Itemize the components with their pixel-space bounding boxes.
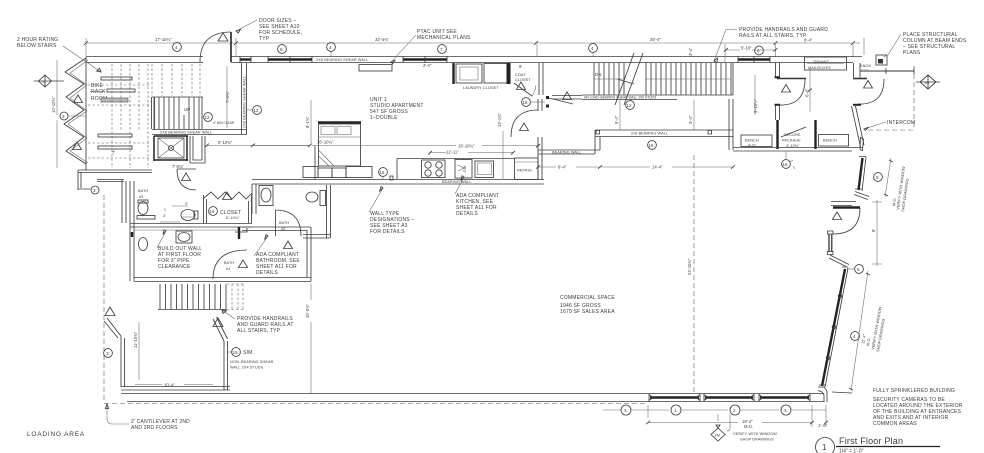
unit entry door arc xyxy=(511,110,538,137)
triangle keynote bike xyxy=(74,95,83,103)
title underline xyxy=(836,446,940,448)
dim line 16'-10 3/4" xyxy=(253,145,538,147)
svg-text:TENANT: TENANT xyxy=(813,60,829,64)
dim diag window2 xyxy=(851,271,868,391)
keynote triangle closet xyxy=(223,192,232,200)
survey diamond right xyxy=(916,75,940,89)
svg-text:7'-6¾": 7'-6¾" xyxy=(225,91,230,103)
property dashed line west xyxy=(103,195,105,400)
dim line y167 xyxy=(538,166,733,168)
SECTION: commercial space xyxy=(560,155,694,393)
keynote triangle at door xyxy=(218,33,228,41)
svg-text:6'-8": 6'-8" xyxy=(805,88,810,97)
svg-text:CLEARANCE: CLEARANCE xyxy=(158,264,191,270)
svg-text:16: 16 xyxy=(210,209,216,214)
svg-text:4" MIN CLEAR: 4" MIN CLEAR xyxy=(213,121,235,125)
stove xyxy=(422,160,446,178)
coat closet door xyxy=(514,83,532,96)
closet label xyxy=(209,207,218,216)
cantilever leader xyxy=(107,404,129,424)
bearing wall upper band xyxy=(595,130,733,137)
washer box xyxy=(456,64,482,83)
svg-text:8': 8' xyxy=(871,229,876,232)
bath3 toilet xyxy=(138,202,148,215)
svg-text:WALL 2X4 STUDS: WALL 2X4 STUDS xyxy=(230,366,264,370)
svg-text:5'-4": 5'-4" xyxy=(614,115,619,124)
svg-text:12: 12 xyxy=(205,115,211,120)
pillow xyxy=(321,127,335,135)
svg-text:2X6 BEARING SHEAR WALL: 2X6 BEARING SHEAR WALL xyxy=(243,76,247,129)
svg-text:15: 15 xyxy=(233,350,239,355)
entry door arc xyxy=(833,208,860,234)
svg-text:1679 SF SALES AREA: 1679 SF SALES AREA xyxy=(560,309,615,315)
svg-text:3': 3' xyxy=(163,214,166,218)
keynote circle 16 wall xyxy=(379,168,388,180)
title circle xyxy=(816,438,835,453)
svg-text:24'-10¾": 24'-10¾" xyxy=(687,258,692,275)
svg-text:First Floor Plan: First Floor Plan xyxy=(839,436,903,446)
bed fold xyxy=(319,150,335,166)
storefront window 2 diagonal xyxy=(822,269,845,386)
svg-text:2X6 BEARING SHEAR WALL: 2X6 BEARING SHEAR WALL xyxy=(316,58,369,62)
svg-text:4'-6": 4'-6" xyxy=(748,144,757,148)
svg-text:TYP: TYP xyxy=(259,36,270,42)
wall stub left of corridor xyxy=(235,228,247,232)
svg-text:NON–BEARING SHEAR: NON–BEARING SHEAR xyxy=(230,360,274,364)
svg-text:FULLY SPRINKLERED BUILDING: FULLY SPRINKLERED BUILDING xyxy=(873,388,955,394)
svg-text:12'-10¾": 12'-10¾" xyxy=(51,96,56,113)
secure package door diagonal xyxy=(781,127,806,137)
svg-text:BENCH: BENCH xyxy=(823,139,837,143)
keynote triangle lobby L xyxy=(782,85,791,93)
bearing wall lower band xyxy=(538,150,600,154)
shaft double wall xyxy=(190,136,205,163)
bike room dashed grid vertical xyxy=(112,64,148,168)
kitchen counter edge xyxy=(397,159,515,180)
corridor toilet xyxy=(139,238,148,251)
small marker on wall xyxy=(390,176,393,180)
keynote circle 3 on step xyxy=(91,186,99,194)
door arc bike hall xyxy=(177,169,196,190)
elevator cab xyxy=(158,138,184,158)
secure package east wall xyxy=(814,120,816,149)
svg-text:REFRIG: REFRIG xyxy=(517,169,532,173)
svg-text:CLOSET: CLOSET xyxy=(515,78,531,82)
svg-text:11'-10¾": 11'-10¾" xyxy=(133,331,138,348)
keynote triangle zigzag lower xyxy=(73,142,82,150)
bike room entry door leaf xyxy=(230,32,232,62)
corridor sink xyxy=(176,231,192,243)
window frame marker xyxy=(860,138,864,151)
svg-text:LOADING AREA: LOADING AREA xyxy=(27,431,85,438)
svg-text:9'-10½": 9'-10½" xyxy=(753,98,758,113)
keynote circle 16 xyxy=(648,141,657,150)
bath2 room: west wall xyxy=(252,184,256,214)
SECTION: upper stair, elevator, shaft xyxy=(152,63,313,190)
bike rack bar gray xyxy=(101,98,128,102)
entry door leaf xyxy=(833,206,860,208)
bath2 toilet xyxy=(306,192,318,202)
lower stair bottom edge xyxy=(158,309,227,311)
svg-text:DN: DN xyxy=(595,72,602,77)
bike rack bar 1 xyxy=(101,77,132,80)
hall door leaf diagonal xyxy=(549,98,573,104)
column dashed line xyxy=(693,155,695,393)
stair south bearing wall xyxy=(582,95,677,100)
handrail leader lower xyxy=(222,310,235,319)
svg-text:5'-10¾": 5'-10¾" xyxy=(218,140,233,145)
svg-text:M: M xyxy=(43,80,46,84)
bath1 north wall xyxy=(242,227,311,231)
bench west box xyxy=(741,135,772,147)
svg-text:5'-10": 5'-10" xyxy=(741,46,752,51)
SECTION: bath block xyxy=(130,181,331,282)
closet east wall xyxy=(249,195,252,223)
SECTION: top dimension chain xyxy=(84,37,864,62)
bath1 door arc xyxy=(213,250,247,279)
buildout leader xyxy=(157,231,166,248)
south wall outer xyxy=(121,394,824,402)
wall stud squares xyxy=(596,131,712,135)
upper stair treads xyxy=(154,97,202,129)
right exit door leaf xyxy=(853,78,867,80)
left lobby door arc xyxy=(779,79,805,105)
bed outline xyxy=(319,124,361,166)
keynote circle 4b xyxy=(327,43,336,56)
corridor north wall band xyxy=(130,224,252,228)
corridor second line xyxy=(134,229,240,231)
svg-text:26'-0¾": 26'-0¾" xyxy=(305,303,310,318)
bike room southwest step walls xyxy=(78,170,90,190)
SECTION: corridor step walls and dims xyxy=(536,99,735,170)
lobby dim line x810 xyxy=(809,68,811,112)
bath2 south wall xyxy=(303,235,330,239)
elevator shaft walls xyxy=(154,136,188,161)
stair dashed part xyxy=(227,284,243,310)
svg-text:1–DOUBLE: 1–DOUBLE xyxy=(370,115,398,121)
window segment w2 xyxy=(268,58,312,60)
elevator X xyxy=(158,138,184,158)
SECTION: central stair DN xyxy=(552,30,737,110)
upper stair top edge xyxy=(152,96,203,98)
keynote triangle stair low xyxy=(213,318,223,327)
svg-text:HR LOAD–BEARING SHEAR WALL 2X6: HR LOAD–BEARING SHEAR WALL 2X6 STUDS xyxy=(584,96,657,100)
window segment w3 xyxy=(403,58,447,60)
right exit door arc xyxy=(858,79,884,104)
lower stair treads xyxy=(160,284,226,309)
storefront window s2 xyxy=(705,396,753,398)
bench east box xyxy=(819,135,849,147)
svg-text:DW: DW xyxy=(463,165,467,172)
SECTION: south wall and bottom dims xyxy=(27,394,828,442)
svg-text:1'-4": 1'-4" xyxy=(818,423,827,428)
svg-text:DETAILS: DETAILS xyxy=(256,270,278,276)
dryer box xyxy=(484,64,509,84)
bath2 east wall xyxy=(327,185,331,238)
lobby south wall xyxy=(733,148,863,152)
bike rack bar 4 xyxy=(98,146,132,149)
keynote triangle entry xyxy=(833,212,842,220)
svg-text:6'-4": 6'-4" xyxy=(558,165,567,170)
dim ext dashed x311 xyxy=(310,100,312,143)
keynote triangle unit door xyxy=(520,123,529,131)
wall step down left xyxy=(595,130,600,154)
keynote circle 3 low xyxy=(104,349,113,358)
bottom dim line xyxy=(603,409,826,411)
shear room west diagonal xyxy=(104,318,121,338)
svg-text:MAILBOXES: MAILBOXES xyxy=(808,66,831,70)
laundry east stud xyxy=(507,63,511,84)
bath2 sink xyxy=(259,186,273,206)
closet west wall xyxy=(204,195,207,223)
storefront window s3 xyxy=(760,396,809,398)
svg-text:12'-1¾": 12'-1¾" xyxy=(497,112,502,127)
cabinet row under bed xyxy=(303,167,318,178)
dim 10'-4" xyxy=(135,384,213,386)
shear room east wall xyxy=(224,341,228,390)
svg-text:PLANS: PLANS xyxy=(903,50,921,56)
svg-text:5'-10¾": 5'-10¾" xyxy=(226,216,240,220)
bike rack bar 3 xyxy=(98,134,132,137)
bottom dim exts xyxy=(648,405,826,427)
svg-text:7': 7' xyxy=(112,150,115,155)
lower west wall to bath block xyxy=(97,180,126,224)
top dim line xyxy=(86,42,860,44)
svg-text:7'-6¾": 7'-6¾" xyxy=(172,164,184,169)
keynote triangle coat xyxy=(517,82,526,90)
shear room west wall xyxy=(121,336,125,387)
corridor east wall x538 xyxy=(538,63,543,180)
svg-text:ALL STAIRS, TYP: ALL STAIRS, TYP xyxy=(237,328,281,334)
wall jog to window2 xyxy=(829,255,849,267)
bike room south wall xyxy=(78,170,152,173)
bike room entry door arc xyxy=(200,32,231,62)
bath3 shelf xyxy=(137,216,155,220)
keynote circle 4 xyxy=(173,43,182,52)
keynote triangle lobby R xyxy=(864,81,873,89)
svg-text:14'-4": 14'-4" xyxy=(652,165,663,170)
svg-text:PACKAGE: PACKAGE xyxy=(782,139,801,143)
svg-text:16'-10¼": 16'-10¼" xyxy=(317,140,334,145)
bed blanket line xyxy=(319,136,361,138)
bed headboard xyxy=(318,121,361,123)
svg-text:BATH: BATH xyxy=(279,221,289,225)
keynote circle 12 stair xyxy=(204,113,213,122)
storefront window 1 xyxy=(859,158,863,190)
west zigzag existing wall xyxy=(64,58,86,164)
sim note xyxy=(228,348,240,357)
svg-text:12: 12 xyxy=(254,108,260,113)
hall door jamb xyxy=(546,96,549,108)
svg-text:32'-4¾": 32'-4¾" xyxy=(375,37,390,42)
west vertical dim line xyxy=(56,60,58,168)
svg-text:26'-4": 26'-4" xyxy=(650,37,661,42)
SECTION: west zigzag wall and bike room xyxy=(34,57,152,223)
svg-text:COMMON AREAS: COMMON AREAS xyxy=(873,421,917,427)
svg-text:LAUNDRY CLOSET: LAUNDRY CLOSET xyxy=(463,86,499,90)
SECTION: east facade xyxy=(818,63,910,402)
svg-text:12'-11": 12'-11" xyxy=(446,150,459,155)
cantilever dashed line xyxy=(104,403,645,405)
svg-text:1/4" = 1'-0": 1/4" = 1'-0" xyxy=(839,449,864,453)
keynote circle 4c xyxy=(589,44,598,57)
svg-text:UP: UP xyxy=(184,107,190,112)
svg-text:SHOP DRAWINGS: SHOP DRAWINGS xyxy=(740,438,774,442)
bike room dashed grid horizontal xyxy=(88,85,150,158)
svg-text:3': 3' xyxy=(185,202,188,206)
sink xyxy=(475,161,494,178)
door jamb left xyxy=(131,232,133,237)
svg-text:12: 12 xyxy=(627,103,633,108)
southeast corner xyxy=(818,387,827,402)
svg-text:3'-4": 3'-4" xyxy=(688,115,693,124)
keynote circle 12 xyxy=(626,99,635,109)
svg-text:COMMERCIAL SPACE: COMMERCIAL SPACE xyxy=(560,295,615,301)
storefront window s1 xyxy=(650,396,699,398)
elevator center circle xyxy=(169,146,174,151)
svg-text:BEARING WALL: BEARING WALL xyxy=(552,151,582,155)
svg-text:M.O.: M.O. xyxy=(744,424,753,429)
svg-text:1M: 1M xyxy=(924,81,929,85)
keynote circle 12 wall xyxy=(247,106,261,115)
shear room south wall xyxy=(121,387,230,391)
svg-text:BATH: BATH xyxy=(138,189,148,193)
sidelite window xyxy=(829,234,832,252)
keynote circle 3 west xyxy=(60,112,86,120)
svg-text:INTERCOM: INTERCOM xyxy=(887,120,915,126)
north wall double line xyxy=(86,57,203,63)
window2 mullions xyxy=(838,294,842,298)
svg-text:16'-10¾": 16'-10¾" xyxy=(458,144,475,149)
dim extension ticks xyxy=(84,41,855,45)
svg-text:2M: 2M xyxy=(715,434,720,438)
svg-text:#3: #3 xyxy=(139,195,143,199)
svg-text:9': 9' xyxy=(519,64,522,69)
stair treads xyxy=(594,63,731,95)
stair west wall xyxy=(152,97,155,129)
dishwasher xyxy=(455,160,472,179)
bottom dim circles xyxy=(621,405,631,415)
svg-text:16: 16 xyxy=(523,100,529,105)
ext line kitchen xyxy=(502,131,504,180)
svg-text:1: 1 xyxy=(822,443,827,452)
svg-text:MECHANICAL PLANS: MECHANICAL PLANS xyxy=(417,35,471,41)
keynote circle 7 xyxy=(438,45,447,54)
mailbox box xyxy=(805,57,847,70)
svg-text:2X6 BEARING SHEAR WALL: 2X6 BEARING SHEAR WALL xyxy=(160,131,213,135)
SECTION: unit 1 apartment xyxy=(252,63,573,184)
upper flight dashed xyxy=(152,64,200,96)
bike rack bar 2 xyxy=(107,89,135,92)
right exit door jamb xyxy=(853,104,861,106)
secure package west wall xyxy=(776,120,778,149)
door width dim xyxy=(872,200,882,266)
refrigerator xyxy=(515,158,539,180)
svg-text:BEARING WALL: BEARING WALL xyxy=(442,180,472,184)
svg-text:16: 16 xyxy=(649,143,655,148)
svg-text:BENCH: BENCH xyxy=(745,139,759,143)
svg-text:VERIFY WITH WINDOW: VERIFY WITH WINDOW xyxy=(733,432,777,436)
window segment w1 xyxy=(240,58,251,60)
stair break line xyxy=(615,53,643,105)
bath3 west wall xyxy=(130,181,134,281)
svg-text:FOR DETAILS: FOR DETAILS xyxy=(370,229,405,235)
stair edge line xyxy=(677,63,733,95)
lobby west wall xyxy=(729,99,733,150)
lobby interior wall west xyxy=(776,63,780,120)
PTAC unit rect xyxy=(359,65,392,72)
laundry west stud xyxy=(452,63,454,84)
canopy gray line xyxy=(860,70,914,72)
mid toilet room fixture xyxy=(181,210,195,221)
SECTION: title block xyxy=(816,436,941,453)
svg-text:#1: #1 xyxy=(226,267,230,271)
svg-text:2'-4": 2'-4" xyxy=(423,63,432,68)
vertical dim ext x694 upper xyxy=(693,100,695,130)
svg-text:17'-10¼": 17'-10¼" xyxy=(155,37,172,42)
left lobby door leaf xyxy=(777,78,806,80)
dashed exterior line right xyxy=(868,66,914,130)
keynote circle 6 xyxy=(278,45,287,54)
svg-text:16: 16 xyxy=(783,162,789,167)
window segment w4 xyxy=(738,58,770,60)
svg-text:BELOW STAIRS: BELOW STAIRS xyxy=(17,43,57,49)
lobby east wall above exit door xyxy=(854,63,861,78)
svg-text:#2: #2 xyxy=(281,227,285,231)
structural column symbol xyxy=(876,55,887,65)
vertical dim ext x620 xyxy=(619,100,621,130)
svg-text:3'-4": 3'-4" xyxy=(688,47,693,56)
keynote circle 16 lobby xyxy=(782,152,795,169)
keynote triangle hall door xyxy=(182,173,191,181)
shear room east diagonal xyxy=(213,317,228,341)
svg-text:SIM.: SIM. xyxy=(243,350,254,356)
stair center rail xyxy=(594,78,731,80)
bath2 door arc xyxy=(275,210,301,236)
svg-text:RAILS AT ALL STAIRS, TYP: RAILS AT ALL STAIRS, TYP xyxy=(739,33,807,39)
bath1 east wall xyxy=(307,227,311,281)
svg-text:BATH: BATH xyxy=(224,261,234,265)
svg-text:SECURE: SECURE xyxy=(784,133,801,137)
keynote triangle shear xyxy=(105,307,115,316)
left lobby door jambs xyxy=(775,77,781,105)
svg-text:8'-1¾": 8'-1¾" xyxy=(305,116,310,128)
dim line 18'-4" xyxy=(648,422,812,424)
unit south bearing wall band xyxy=(252,180,544,185)
entry door wall xyxy=(831,202,856,206)
keynote circle 5 door xyxy=(847,265,863,274)
svg-text:DETAILS: DETAILS xyxy=(456,211,478,217)
keynote circle 16 coat xyxy=(522,98,545,107)
survey diamond west xyxy=(34,75,64,87)
svg-text:2x6 BEARING WALL: 2x6 BEARING WALL xyxy=(631,132,668,136)
wall jog below window1 xyxy=(854,192,869,200)
stair bearing wall band xyxy=(152,130,247,135)
SECTION: tenant lobby xyxy=(733,55,940,169)
keynote triangle hall xyxy=(563,92,572,100)
window diamond symbol xyxy=(711,414,725,441)
SECTION: exterior north wall xyxy=(86,32,862,71)
ada bathroom leader xyxy=(254,236,268,256)
closet zigzag north xyxy=(204,192,252,199)
bed nook wall xyxy=(314,146,316,180)
svg-text:COAT: COAT xyxy=(515,73,526,77)
keynote triangle bath1 xyxy=(239,260,248,268)
keynote circle 6b xyxy=(755,46,764,55)
bike room west inner wall xyxy=(85,57,87,170)
east shear wall vertical band xyxy=(242,63,247,134)
corridor south wall band xyxy=(134,278,311,282)
